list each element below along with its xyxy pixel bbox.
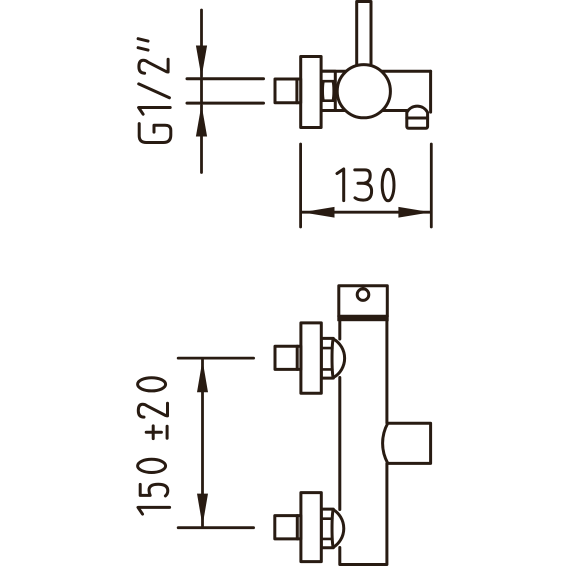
front view: top union flange (301, 323, 321, 393)
side view: body bottom line (321, 109, 407, 112)
value label 150 plus-minus 20 (rotated) (138, 378, 170, 514)
front view: top union square collar line (296, 346, 299, 369)
front view: cap band (337, 316, 388, 322)
arrow down (197, 494, 208, 526)
extension line right (430, 144, 433, 227)
front view: spout (383, 423, 431, 463)
front view: bottom union nut facet lower (321, 538, 332, 541)
front view: top union nut (321, 338, 333, 378)
front view: top union nut facet lower (321, 368, 332, 371)
front view: hanger hole circle (357, 289, 369, 301)
G1/2 pipe line bottom (187, 102, 264, 105)
side view: hex nut facet curve right (332, 81, 335, 101)
side view: spout divider line (407, 117, 428, 120)
arrow down (196, 46, 207, 78)
value label G1/2 inch (rotated) (138, 39, 171, 143)
side view: spout under body right (407, 106, 428, 128)
front view: body outline with gaps for unions and spout (340, 318, 387, 565)
dimension line (201, 360, 204, 526)
side view: square union collar line (295, 79, 298, 103)
front view: top union square (275, 346, 301, 369)
side view: handle lever (357, 2, 371, 70)
G1/2 pipe line top (187, 77, 264, 80)
front view: top union dome (333, 339, 344, 378)
front view: bottom union square (275, 516, 301, 539)
side view: body right edge (429, 71, 432, 112)
extension line left (299, 144, 302, 227)
arrow right (398, 207, 431, 218)
extension line bottom (178, 526, 253, 529)
arrow left (302, 207, 335, 218)
front view: top cap (339, 286, 388, 317)
front view: bottom union nut (321, 509, 333, 548)
value label 130 (337, 169, 394, 201)
dimension line (302, 211, 431, 214)
dim line upper (200, 10, 203, 77)
front view: bottom union square collar line (296, 516, 299, 539)
side view: hex nut facet curve left (322, 81, 325, 101)
side view: body top line (321, 70, 431, 73)
side view: square union + stem (275, 79, 301, 103)
side view: hex nut between flange and body (321, 71, 335, 110)
side view: hex nut facet line lower (321, 99, 335, 102)
side view: wall flange plate (301, 57, 321, 128)
front view: hanger hole tick (362, 286, 365, 290)
arrow up (196, 105, 207, 137)
front view: bottom union flange (301, 493, 321, 562)
extension line top (178, 357, 253, 360)
front view: bottom union dome (333, 510, 343, 548)
front view: bottom union nut facet upper (321, 517, 332, 520)
front view: top union nut facet upper (321, 347, 332, 350)
dim line lower (200, 106, 203, 173)
arrow up (197, 360, 208, 392)
dim line middle (200, 80, 203, 102)
side view: cartridge circle (337, 65, 390, 118)
side view: hex nut facet line upper (321, 80, 335, 83)
